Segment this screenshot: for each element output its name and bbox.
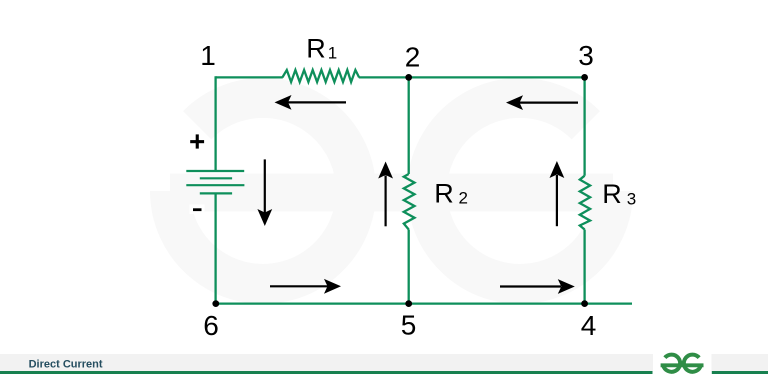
svg-text:Direct Current: Direct Current bbox=[29, 359, 103, 371]
svg-text:R: R bbox=[434, 178, 454, 208]
node 2 junction dot bbox=[405, 74, 412, 81]
node 5 junction dot bbox=[405, 300, 412, 307]
GeeksforGeeks logo bbox=[661, 355, 704, 372]
battery V1 (four plates) bbox=[186, 171, 244, 193]
footer green underline left bbox=[0, 371, 653, 374]
value label R1 bbox=[306, 33, 337, 63]
footer band right bbox=[712, 354, 768, 372]
svg-text:6: 6 bbox=[203, 310, 219, 341]
current arrow right-loop up bbox=[550, 161, 565, 226]
footer band left bbox=[0, 354, 653, 372]
wire left vertical upper (node1 to battery) bbox=[214, 76, 216, 171]
svg-text:R: R bbox=[306, 33, 326, 63]
node 3 junction dot bbox=[581, 74, 588, 81]
battery minus sign bbox=[190, 205, 205, 215]
value label R2 bbox=[434, 178, 468, 208]
svg-text:1: 1 bbox=[328, 44, 337, 63]
resistor R1 (zigzag) bbox=[282, 70, 359, 82]
resistor R3 (zigzag) bbox=[580, 176, 590, 230]
wire right vertical lower (R3 to node4) bbox=[583, 230, 585, 304]
svg-text:3: 3 bbox=[627, 189, 636, 208]
current arrow middle-loop up bbox=[378, 162, 393, 227]
node 4 junction dot bbox=[581, 300, 588, 307]
node 6 junction dot bbox=[212, 300, 219, 307]
svg-text:1: 1 bbox=[200, 40, 216, 71]
wire middle vertical lower (R2 to node5) bbox=[408, 230, 410, 304]
battery plus sign bbox=[190, 134, 204, 148]
current arrow bottom-left (pointing right) bbox=[270, 279, 341, 294]
wire middle vertical upper (node2 to R2) bbox=[408, 77, 410, 174]
svg-text:5: 5 bbox=[401, 310, 417, 341]
svg-text:4: 4 bbox=[581, 310, 597, 341]
value label R3 bbox=[602, 179, 636, 209]
footer green underline right bbox=[712, 371, 768, 374]
wire right vertical upper (node3 to R3) bbox=[583, 77, 585, 175]
current arrow left-loop down bbox=[257, 159, 272, 226]
svg-text:R: R bbox=[602, 179, 622, 209]
current arrow top-right (under wire 2-3, pointing left) bbox=[506, 95, 578, 110]
wire bottom 6-5-4 bbox=[216, 302, 632, 304]
current arrow left (under R1, pointing left) bbox=[275, 95, 347, 110]
svg-text:2: 2 bbox=[459, 189, 468, 208]
wire top right (R1 to node3) bbox=[359, 76, 585, 78]
resistor R2 (zigzag) bbox=[404, 174, 415, 230]
wire top left (node1 to R1) bbox=[216, 76, 283, 78]
svg-text:3: 3 bbox=[578, 40, 594, 71]
faint background watermark (decorative) bbox=[170, 98, 613, 284]
current arrow bottom-right (pointing right) bbox=[500, 279, 575, 294]
wire left vertical lower (battery to node6) bbox=[214, 193, 216, 303]
svg-text:2: 2 bbox=[405, 42, 421, 73]
